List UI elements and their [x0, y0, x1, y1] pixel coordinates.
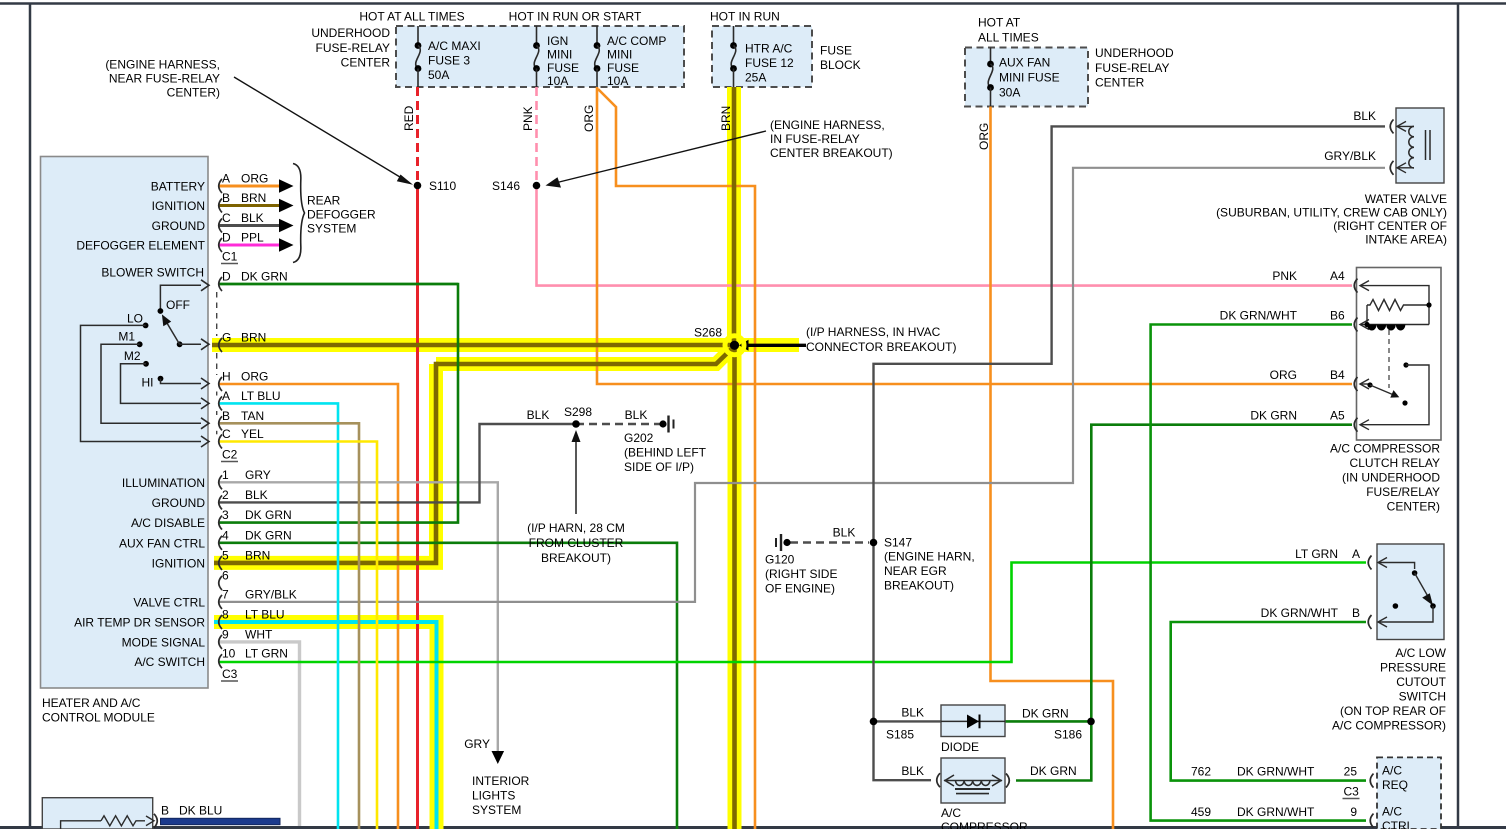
- svg-text:UNDERHOOD: UNDERHOOD: [1095, 46, 1174, 60]
- ground G120 symbol: [783, 539, 790, 546]
- svg-text:HEATER AND A/C: HEATER AND A/C: [42, 696, 141, 710]
- svg-text:ALL TIMES: ALL TIMES: [978, 31, 1039, 45]
- interior lights arrow: [492, 751, 505, 764]
- A/C compressor clutch relay box: [1357, 268, 1442, 441]
- highlight band black stub right of S268: [735, 338, 800, 352]
- relay dashed actuator link: [1388, 330, 1390, 388]
- svg-text:S110: S110: [429, 179, 456, 193]
- svg-text:(ENGINE HARNESS,: (ENGINE HARNESS,: [105, 58, 220, 72]
- A/C REQ pin 25 arc: [1370, 774, 1373, 788]
- svg-text:PPL: PPL: [241, 231, 264, 245]
- svg-text:(I/P HARN, 28 CM: (I/P HARN, 28 CM: [527, 521, 625, 535]
- relay coil junction dot: [1364, 322, 1369, 327]
- wire GRY pin 1 to interior lights: [219, 482, 498, 751]
- rear defogger arrow row C: [279, 219, 294, 233]
- splice S110: [414, 182, 422, 190]
- wire DK GRN pin D blower switch feed: [219, 283, 458, 286]
- wire DK GRN diode to S186: [1005, 720, 1091, 723]
- module C1 pin A arc: [219, 179, 222, 193]
- svg-text:A/C SWITCH: A/C SWITCH: [134, 655, 205, 669]
- rear defogger arrow row D: [279, 238, 294, 252]
- svg-text:BLK: BLK: [833, 526, 856, 540]
- leader arrow engine harness to S110: [234, 77, 409, 183]
- diode symbol: [967, 715, 979, 729]
- svg-text:BLK: BLK: [901, 706, 924, 720]
- svg-text:BLK: BLK: [245, 488, 268, 502]
- svg-text:762: 762: [1191, 765, 1211, 779]
- svg-text:BRN: BRN: [245, 548, 270, 562]
- svg-text:C: C: [222, 427, 231, 441]
- svg-text:IGN: IGN: [547, 34, 568, 48]
- relay pin A4 arc: [1354, 279, 1357, 293]
- wire LT BLU pin 8 over highlight: [214, 622, 437, 829]
- svg-text:H: H: [222, 370, 231, 384]
- svg-text:OFF: OFF: [166, 298, 190, 312]
- blower switch OFF contact dot: [158, 308, 164, 314]
- module connector dashed edge C1-G: [216, 292, 218, 336]
- wire PNK dashed from IGN MINI fuse to S146: [535, 87, 538, 186]
- svg-text:7: 7: [222, 587, 229, 601]
- svg-text:S185: S185: [886, 728, 914, 742]
- wire YEL pin C to page bottom: [219, 442, 377, 829]
- svg-text:FUSE: FUSE: [607, 61, 639, 75]
- diode wire through: [941, 720, 1005, 722]
- highlight band pin G BRN row: [212, 338, 735, 352]
- svg-text:25: 25: [1344, 765, 1358, 779]
- wire pin B BRN to rear defogger: [219, 204, 281, 207]
- wire BLK water valve to S147 to S185 to compressor: [874, 126, 1386, 721]
- svg-text:A/C DISABLE: A/C DISABLE: [131, 516, 205, 530]
- module pin 1 arc: [219, 475, 222, 489]
- wire WHT pin 9 to page bottom: [219, 642, 300, 826]
- svg-text:B: B: [161, 804, 169, 818]
- svg-text:(I/P HARNESS, IN HVAC: (I/P HARNESS, IN HVAC: [806, 325, 941, 339]
- svg-text:DK GRN: DK GRN: [1022, 707, 1069, 721]
- wire BLK dashed S298 to G202: [576, 423, 661, 425]
- wire BLK S185 to diode: [874, 720, 942, 722]
- wire ORG pin H to page bottom: [219, 384, 398, 829]
- wire DK GRN/WHT relay pin B6 to A/C CTRL pin 9: [1151, 325, 1366, 821]
- svg-text:DK GRN/WHT: DK GRN/WHT: [1261, 606, 1339, 620]
- wire RED dashed from A/C MAXI fuse to S110: [416, 87, 419, 186]
- rear defogger brace: [293, 164, 305, 263]
- low pressure switch pin B arrow: [1378, 621, 1400, 623]
- svg-text:DK GRN: DK GRN: [245, 528, 292, 542]
- relay internal A4 feed: [1382, 286, 1429, 325]
- svg-text:ORG: ORG: [977, 123, 991, 150]
- svg-text:S298: S298: [564, 405, 592, 419]
- svg-text:CLUTCH RELAY: CLUTCH RELAY: [1350, 456, 1440, 470]
- splice S298: [572, 420, 580, 428]
- heater and A/C control module box: [41, 157, 209, 689]
- svg-text:SYSTEM: SYSTEM: [307, 222, 356, 236]
- svg-text:MINI: MINI: [547, 48, 572, 62]
- svg-text:GROUND: GROUND: [152, 496, 206, 510]
- svg-text:DK GRN: DK GRN: [1250, 409, 1297, 423]
- blower switch M2 contact: [143, 361, 149, 367]
- wire BLK pin 2 to S298: [219, 424, 576, 502]
- module pin G arc: [219, 338, 222, 352]
- svg-text:WATER VALVE: WATER VALVE: [1365, 192, 1447, 206]
- svg-text:BLOCK: BLOCK: [820, 58, 861, 72]
- svg-text:HOT AT ALL TIMES: HOT AT ALL TIMES: [359, 10, 464, 24]
- svg-text:LT GRN: LT GRN: [245, 647, 288, 661]
- svg-text:DK BLU: DK BLU: [179, 804, 222, 818]
- relay switch arm: [1367, 382, 1372, 387]
- svg-text:BRN: BRN: [241, 191, 266, 205]
- svg-text:B: B: [222, 409, 230, 423]
- svg-text:BLK: BLK: [625, 408, 648, 422]
- module pin 3 arc: [219, 516, 222, 530]
- svg-text:2: 2: [222, 488, 229, 502]
- svg-text:ORG: ORG: [582, 105, 596, 132]
- svg-text:A5: A5: [1330, 409, 1345, 423]
- relay resistor: [1367, 300, 1429, 311]
- svg-text:(RIGHT SIDE: (RIGHT SIDE: [765, 567, 837, 581]
- svg-text:D: D: [222, 231, 231, 245]
- wire DK GRN/WHT low pressure switch pin B to A/C REQ pin 25: [1171, 622, 1366, 781]
- svg-text:CENTER: CENTER: [1095, 76, 1145, 90]
- svg-text:FUSE/RELAY: FUSE/RELAY: [1366, 485, 1440, 499]
- svg-text:S186: S186: [1054, 728, 1082, 742]
- module pin 4 arc: [219, 536, 222, 550]
- page border frame: [0, 2, 1506, 5]
- A/C compressor pin BLK arc: [937, 773, 940, 787]
- relay resistor junction dot: [1426, 302, 1431, 307]
- svg-text:DK GRN: DK GRN: [1030, 764, 1077, 778]
- svg-text:WHT: WHT: [245, 627, 273, 641]
- svg-text:G202: G202: [624, 431, 654, 445]
- svg-text:GRY: GRY: [245, 468, 271, 482]
- splice S147: [870, 539, 878, 547]
- svg-text:A/C: A/C: [941, 806, 961, 820]
- blower switch wiper arm: [177, 341, 183, 347]
- svg-text:REAR: REAR: [307, 194, 341, 208]
- svg-text:A/C MAXI: A/C MAXI: [428, 39, 481, 53]
- fuse AUX FAN MINI FUSE 30A: [990, 48, 992, 65]
- wire DK GRN relay pin A5 to S186 to compressor: [1016, 425, 1352, 781]
- low pressure switch pin A arc: [1368, 556, 1371, 570]
- low pressure switch internal contacts: [1400, 563, 1415, 570]
- svg-text:S146: S146: [492, 179, 520, 193]
- wire pin A ORG to rear defogger: [219, 185, 281, 188]
- svg-text:A/C: A/C: [1382, 805, 1402, 819]
- svg-text:INTAKE AREA): INTAKE AREA): [1365, 233, 1447, 247]
- module pin B2 arc: [219, 416, 222, 430]
- wire ORG branch jog from A/C COMP MINI fuse: [598, 89, 755, 829]
- module pin 5 arc: [219, 556, 222, 570]
- PCM connector box A/C REQ and A/C CTRL: [1377, 757, 1441, 829]
- svg-text:A: A: [222, 172, 230, 186]
- A/C CTRL pin 9 arc: [1370, 814, 1373, 828]
- svg-text:DIODE: DIODE: [941, 740, 979, 754]
- highlight band BRN branch S268 to ignition pin 5: [436, 347, 733, 364]
- wire BRN branch S268 to ignition pin 5: [436, 348, 733, 365]
- svg-text:BATTERY: BATTERY: [151, 180, 205, 194]
- svg-text:SIDE OF I/P): SIDE OF I/P): [624, 460, 694, 474]
- svg-text:HI: HI: [142, 376, 154, 390]
- svg-text:10: 10: [222, 647, 236, 661]
- svg-text:ORG: ORG: [1270, 368, 1297, 382]
- A/C compressor coil symbol: [944, 780, 1002, 782]
- wire LT BLU pin A to page bottom: [219, 403, 338, 829]
- svg-text:A/C: A/C: [1382, 764, 1402, 778]
- svg-text:CONTROL MODULE: CONTROL MODULE: [42, 711, 155, 725]
- svg-text:G: G: [222, 331, 231, 345]
- relay switch upper contact: [1403, 362, 1408, 367]
- svg-text:LIGHTS: LIGHTS: [472, 789, 515, 803]
- svg-text:PRESSURE: PRESSURE: [1380, 661, 1446, 675]
- svg-text:A: A: [222, 389, 230, 403]
- svg-text:C3: C3: [222, 667, 238, 681]
- svg-text:4: 4: [222, 528, 229, 542]
- module connector dashed edge G-H: [216, 353, 218, 375]
- A/C compressor box: [941, 758, 1005, 803]
- svg-text:LT BLU: LT BLU: [241, 389, 281, 403]
- module pin D arc: [219, 277, 222, 291]
- water valve box: [1396, 108, 1444, 183]
- svg-text:A/C COMPRESSOR): A/C COMPRESSOR): [1332, 719, 1446, 733]
- wire GRY/BLK pin 7 valve ctrl to water valve: [219, 168, 1385, 602]
- svg-text:(RIGHT CENTER OF: (RIGHT CENTER OF: [1333, 219, 1447, 233]
- leader arrow I/P harn to S298: [575, 434, 577, 514]
- svg-text:HOT AT: HOT AT: [978, 16, 1021, 30]
- svg-text:CENTER: CENTER: [341, 56, 391, 70]
- fuse A/C MAXI FUSE 3 50A: [417, 26, 419, 46]
- svg-text:LT BLU: LT BLU: [245, 608, 285, 622]
- svg-text:A4: A4: [1330, 269, 1345, 283]
- highlight band BRN trunk below S268: [728, 345, 742, 829]
- fuse HTR A/C FUSE 12 25A: [733, 26, 735, 46]
- svg-text:TAN: TAN: [241, 409, 264, 423]
- svg-text:AUX FAN: AUX FAN: [999, 56, 1050, 70]
- svg-text:ILLUMINATION: ILLUMINATION: [122, 476, 205, 490]
- leader arrow engine harness breakout to S146: [549, 131, 766, 185]
- wire BLK dashed G120 to S147: [790, 541, 869, 543]
- wire BRN pin G to S268: [212, 343, 735, 348]
- svg-text:A/C COMP: A/C COMP: [607, 34, 666, 48]
- svg-text:BRN: BRN: [241, 331, 266, 345]
- svg-text:RED: RED: [402, 105, 416, 131]
- svg-text:FUSE: FUSE: [547, 61, 579, 75]
- wire RED from S110 to page bottom: [416, 186, 419, 829]
- svg-text:MINI: MINI: [607, 48, 632, 62]
- svg-text:C3: C3: [1344, 785, 1360, 799]
- low pressure switch middle contact dot: [1393, 603, 1399, 609]
- module connector dashed edge B-C: [216, 431, 218, 435]
- relay pin A5 arc: [1354, 418, 1357, 432]
- water valve coil: [1409, 126, 1414, 168]
- A/C low pressure cutout switch box: [1377, 544, 1444, 640]
- svg-text:A/C COMPRESSOR: A/C COMPRESSOR: [1330, 442, 1440, 456]
- wire ORG from A/C COMP MINI fuse to clutch relay pin B4: [597, 87, 1352, 384]
- module connector dashed edge A-B: [216, 411, 218, 416]
- module pin 8 arc: [219, 615, 222, 629]
- wire TAN pin B to page bottom: [219, 423, 359, 829]
- svg-text:CTRL: CTRL: [1382, 819, 1414, 829]
- module pin 7 arc: [219, 595, 222, 609]
- ground G202 symbol: [659, 420, 666, 427]
- underhood fuse-relay center box (fuses 1-3): [396, 26, 684, 87]
- svg-text:DK GRN/WHT: DK GRN/WHT: [1237, 765, 1315, 779]
- blower resistor element: [61, 821, 101, 829]
- svg-text:CENTER): CENTER): [167, 86, 220, 100]
- svg-text:REQ: REQ: [1382, 778, 1408, 792]
- wire PNK from S146 to clutch relay pin A4: [537, 186, 1353, 286]
- fuse A/C COMP MINI FUSE 10A: [596, 26, 598, 46]
- wire DK GRN pin 3 to pin D loop: [219, 284, 458, 523]
- svg-text:S268: S268: [694, 326, 722, 340]
- leader arrow I/P harness to S268: [741, 344, 806, 347]
- svg-text:FROM CLUSTER: FROM CLUSTER: [529, 536, 624, 550]
- blower switch feed line to pin D: [160, 285, 201, 311]
- svg-text:B6: B6: [1330, 309, 1345, 323]
- svg-text:B: B: [1352, 606, 1360, 620]
- fuse block box (HTR A/C FUSE 12): [712, 26, 812, 87]
- fuse IGN MINI FUSE 10A: [536, 26, 538, 46]
- module pin H arc: [219, 377, 222, 391]
- svg-text:25A: 25A: [745, 71, 766, 85]
- svg-text:LT GRN: LT GRN: [1295, 547, 1338, 561]
- svg-text:GRY/BLK: GRY/BLK: [1324, 149, 1376, 163]
- svg-text:GRY/BLK: GRY/BLK: [245, 587, 297, 601]
- low pressure switch pin B arc: [1368, 615, 1371, 629]
- svg-text:MODE SIGNAL: MODE SIGNAL: [122, 636, 206, 650]
- svg-text:BRN: BRN: [719, 106, 733, 131]
- blower switch HI contact: [158, 376, 164, 382]
- svg-text:BLOWER SWITCH: BLOWER SWITCH: [101, 266, 204, 280]
- svg-text:OF ENGINE): OF ENGINE): [765, 582, 835, 596]
- module pin 6 arc: [219, 576, 222, 590]
- splice S185: [870, 718, 878, 726]
- wire pin D PPL to rear defogger: [219, 244, 281, 247]
- svg-text:S147: S147: [884, 536, 912, 550]
- module pin C2 arc: [219, 435, 222, 449]
- svg-text:IN FUSE-RELAY: IN FUSE-RELAY: [770, 132, 860, 146]
- relay pin A5 arrow: [1360, 424, 1382, 426]
- svg-text:VALVE CTRL: VALVE CTRL: [133, 596, 205, 610]
- svg-text:IGNITION: IGNITION: [152, 199, 205, 213]
- svg-text:PNK: PNK: [1272, 269, 1297, 283]
- wire DK BLU from blower resistor pin B: [161, 818, 281, 824]
- relay pin B4 arc: [1354, 377, 1357, 391]
- svg-text:C: C: [222, 211, 231, 225]
- svg-text:BLK: BLK: [1353, 109, 1376, 123]
- svg-text:UNDERHOOD: UNDERHOOD: [311, 26, 390, 40]
- rear defogger arrow row B: [279, 199, 294, 213]
- module C1 pin D arc: [219, 238, 222, 252]
- svg-text:CUTOUT: CUTOUT: [1396, 675, 1446, 689]
- svg-text:B4: B4: [1330, 368, 1345, 382]
- module pin 9 arc: [219, 635, 222, 649]
- water valve pin BLK arrow: [1397, 125, 1414, 127]
- svg-text:DK GRN/WHT: DK GRN/WHT: [1220, 309, 1298, 323]
- svg-text:CONNECTOR BREAKOUT): CONNECTOR BREAKOUT): [806, 340, 956, 354]
- svg-text:AIR TEMP DR SENSOR: AIR TEMP DR SENSOR: [74, 616, 205, 630]
- blower switch M1 contact: [137, 341, 143, 347]
- svg-text:(ENGINE HARNESS,: (ENGINE HARNESS,: [770, 118, 885, 132]
- svg-text:GROUND: GROUND: [152, 219, 206, 233]
- svg-text:BREAKOUT): BREAKOUT): [541, 551, 611, 565]
- module connector dashed edge H-A: [216, 392, 218, 397]
- svg-text:FUSE-RELAY: FUSE-RELAY: [1095, 61, 1169, 75]
- svg-text:AUX FAN CTRL: AUX FAN CTRL: [119, 537, 205, 551]
- svg-text:DK GRN: DK GRN: [241, 270, 288, 284]
- svg-text:NEAR FUSE-RELAY: NEAR FUSE-RELAY: [109, 72, 220, 86]
- svg-text:BLK: BLK: [901, 764, 924, 778]
- svg-text:LO: LO: [127, 312, 143, 326]
- rear defogger arrow row A: [279, 179, 294, 193]
- svg-text:(BEHIND LEFT: (BEHIND LEFT: [624, 446, 707, 460]
- svg-text:50A: 50A: [428, 68, 449, 82]
- module pin A2 arc: [219, 396, 222, 410]
- splice S268: [725, 336, 744, 355]
- relay coil: [1367, 324, 1429, 326]
- wire pin C BLK to rear defogger: [219, 224, 281, 227]
- svg-text:COMPRESSOR: COMPRESSOR: [941, 820, 1028, 829]
- svg-text:MINI FUSE: MINI FUSE: [999, 71, 1060, 85]
- svg-text:FUSE 3: FUSE 3: [428, 54, 470, 68]
- A/C compressor pin DK GRN arc: [1006, 774, 1009, 788]
- svg-text:1: 1: [222, 468, 229, 482]
- wire LT GRN pin 10 to low pressure switch pin A: [219, 563, 1366, 663]
- wire BRN trunk fuse 12 to S268 to page bottom: [732, 87, 737, 345]
- svg-text:D: D: [222, 270, 231, 284]
- svg-text:(ENGINE HARN,: (ENGINE HARN,: [884, 550, 975, 564]
- module pin 2 arc: [219, 495, 222, 509]
- svg-text:M1: M1: [118, 330, 135, 344]
- svg-text:SWITCH: SWITCH: [1399, 690, 1446, 704]
- svg-text:DK GRN: DK GRN: [245, 508, 292, 522]
- water valve pin GRY/BLK arrow: [1397, 167, 1414, 169]
- water valve pin BLK arc: [1390, 119, 1393, 133]
- svg-text:DEFOGGER ELEMENT: DEFOGGER ELEMENT: [76, 239, 205, 253]
- underhood fuse-relay center box (AUX FAN fuse): [965, 48, 1088, 107]
- svg-text:10A: 10A: [547, 74, 568, 88]
- svg-text:FUSE 12: FUSE 12: [745, 56, 794, 70]
- svg-text:HOT IN RUN: HOT IN RUN: [710, 10, 780, 24]
- module C1 pin B arc: [219, 199, 222, 213]
- module C1 pin C arc: [219, 219, 222, 233]
- svg-text:IGNITION: IGNITION: [152, 557, 205, 571]
- blower resistor pin B arc: [154, 814, 157, 828]
- svg-text:CENTER): CENTER): [1387, 500, 1440, 514]
- svg-text:DEFOGGER: DEFOGGER: [307, 208, 376, 222]
- svg-text:30A: 30A: [999, 86, 1020, 100]
- relay pin B4 arrow: [1360, 383, 1368, 385]
- highlight band BRN trunk from fuse 12: [727, 87, 741, 345]
- svg-text:6: 6: [222, 569, 229, 583]
- svg-text:NEAR EGR: NEAR EGR: [884, 564, 947, 578]
- relay pin B6 arc: [1354, 318, 1357, 332]
- svg-text:9: 9: [1350, 805, 1357, 819]
- svg-text:G120: G120: [765, 553, 795, 567]
- module pin 10 arc: [219, 654, 222, 668]
- svg-text:FUSE: FUSE: [820, 44, 852, 58]
- wire ORG from AUX FAN fuse to page bottom: [991, 107, 1114, 829]
- svg-text:M2: M2: [124, 349, 141, 363]
- svg-text:PNK: PNK: [521, 106, 535, 131]
- svg-text:9: 9: [222, 627, 229, 641]
- svg-text:A/C LOW: A/C LOW: [1395, 646, 1446, 660]
- svg-text:HTR A/C: HTR A/C: [745, 42, 793, 56]
- blower switch LO contact: [143, 323, 149, 329]
- svg-text:INTERIOR: INTERIOR: [472, 774, 530, 788]
- water valve pin GRY/BLK arc: [1390, 161, 1393, 175]
- diode box: [941, 705, 1005, 737]
- svg-text:DK GRN/WHT: DK GRN/WHT: [1237, 805, 1315, 819]
- svg-text:8: 8: [222, 608, 229, 622]
